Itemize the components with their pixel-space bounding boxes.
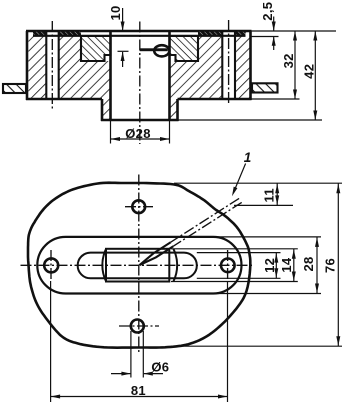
dimension 14 [279,249,296,282]
dimension 76 [323,183,341,346]
svg-text:42: 42 [301,64,316,79]
right hole vertical centerline [227,250,229,281]
panel left tab [3,84,26,93]
top hole cross centerline [125,206,153,208]
pointer lever phantom lines [140,198,242,265]
left bolt hole walls [46,31,58,99]
central slot 12 [78,253,197,279]
svg-text:Ø28: Ø28 [125,126,150,141]
svg-text:2,5: 2,5 [260,2,275,21]
dimension 10 [108,5,129,67]
left hole [44,258,58,272]
right hole [221,259,235,273]
bore walls [111,31,170,121]
right gland bushing [170,36,199,61]
svg-text:14: 14 [279,257,294,273]
plan outer oval outline [28,183,250,348]
dimension 32 [281,31,297,99]
svg-text:11: 11 [261,188,276,202]
slot step rectangle 14 [106,249,169,282]
plan vertical centerline [138,175,140,354]
flange body outline [26,31,252,121]
svg-text:28: 28 [301,256,316,271]
svg-text:81: 81 [131,383,146,398]
svg-text:32: 32 [281,53,296,68]
slot 12 extension lines [197,253,281,279]
bottom hole [131,320,144,333]
bore centerline [139,22,141,145]
panel right tab [252,83,278,92]
top surface extension line [252,30,337,32]
right bolt hole walls [222,31,235,99]
dimension 11 [261,183,279,205]
left gland bushing [81,36,111,61]
hub bottom extension line [179,119,323,121]
dimension 12 [262,253,278,279]
flange body cross-section hatching [29,31,250,120]
left hole vertical centerline [50,250,52,281]
bottom surface extension line [252,98,300,100]
svg-text:10: 10 [108,5,123,20]
slot 14 extension lines [171,249,298,282]
pointer pin [140,45,170,56]
lever tip extension line [234,204,293,206]
plan horizontal centerline [21,264,254,266]
oval top extension line [174,182,342,184]
svg-text:76: 76 [323,258,338,273]
stadium extension lines [214,237,321,294]
oval bottom extension line [175,345,342,347]
left bolt hole centerline [51,21,53,109]
dimension 28 [301,237,319,294]
hub silhouette arcs [102,249,177,282]
stadium recess contour [37,237,241,294]
dimension 2,5 [252,2,279,50]
svg-text:Ø6: Ø6 [151,360,169,375]
dimension diameter 6 [111,331,169,378]
leader label 1 [232,150,251,196]
dimension diameter 28 [111,121,170,144]
dimension 81 [51,281,228,402]
svg-text:12: 12 [262,258,277,273]
top hole [132,200,145,213]
dimension 42 [301,31,317,120]
gasket strip [33,32,246,36]
svg-text:1: 1 [244,150,252,165]
right bolt hole centerline [228,20,230,105]
bottom hole cross centerline [119,325,159,327]
